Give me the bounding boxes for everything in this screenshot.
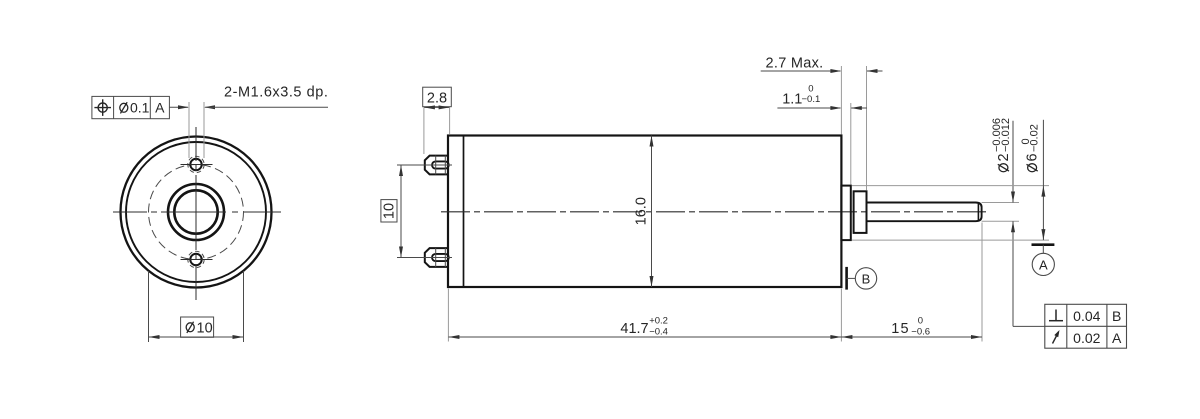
svg-text:16.0: 16.0 xyxy=(634,197,650,225)
svg-text:2.8: 2.8 xyxy=(427,91,447,107)
svg-text:−0.4: −0.4 xyxy=(649,326,668,337)
svg-text:1.1: 1.1 xyxy=(782,91,802,107)
svg-text:6: 6 xyxy=(1025,153,1041,161)
svg-text:0.1: 0.1 xyxy=(130,100,150,116)
svg-text:−0.012: −0.012 xyxy=(1000,118,1012,152)
svg-text:2-M1.6x3.5 dp.: 2-M1.6x3.5 dp. xyxy=(224,85,328,101)
svg-text:10: 10 xyxy=(197,320,213,336)
svg-text:41.7: 41.7 xyxy=(620,321,648,337)
svg-text:0.04: 0.04 xyxy=(1073,308,1100,324)
svg-text:B: B xyxy=(1112,308,1121,324)
svg-text:10: 10 xyxy=(382,203,398,219)
svg-text:15: 15 xyxy=(891,321,910,337)
svg-text:−0.6: −0.6 xyxy=(911,326,930,337)
svg-text:A: A xyxy=(1112,330,1122,346)
svg-text:A: A xyxy=(1039,257,1048,272)
svg-text:2.7 Max.: 2.7 Max. xyxy=(766,55,824,71)
svg-text:0.02: 0.02 xyxy=(1073,330,1100,346)
svg-text:+0.2: +0.2 xyxy=(649,316,668,327)
svg-text:0: 0 xyxy=(808,83,813,94)
svg-text:−0.1: −0.1 xyxy=(802,94,821,105)
svg-text:2: 2 xyxy=(996,153,1012,161)
svg-text:0: 0 xyxy=(918,316,923,327)
svg-text:B: B xyxy=(862,271,871,286)
svg-text:−0.02: −0.02 xyxy=(1028,124,1040,152)
svg-text:A: A xyxy=(155,100,165,116)
